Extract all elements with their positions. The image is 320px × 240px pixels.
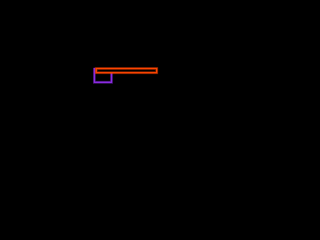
purple rectangle glow [94,68,111,82]
red rectangle glow [96,69,157,73]
purple rectangle core [94,68,111,82]
red rectangle core [96,69,157,73]
